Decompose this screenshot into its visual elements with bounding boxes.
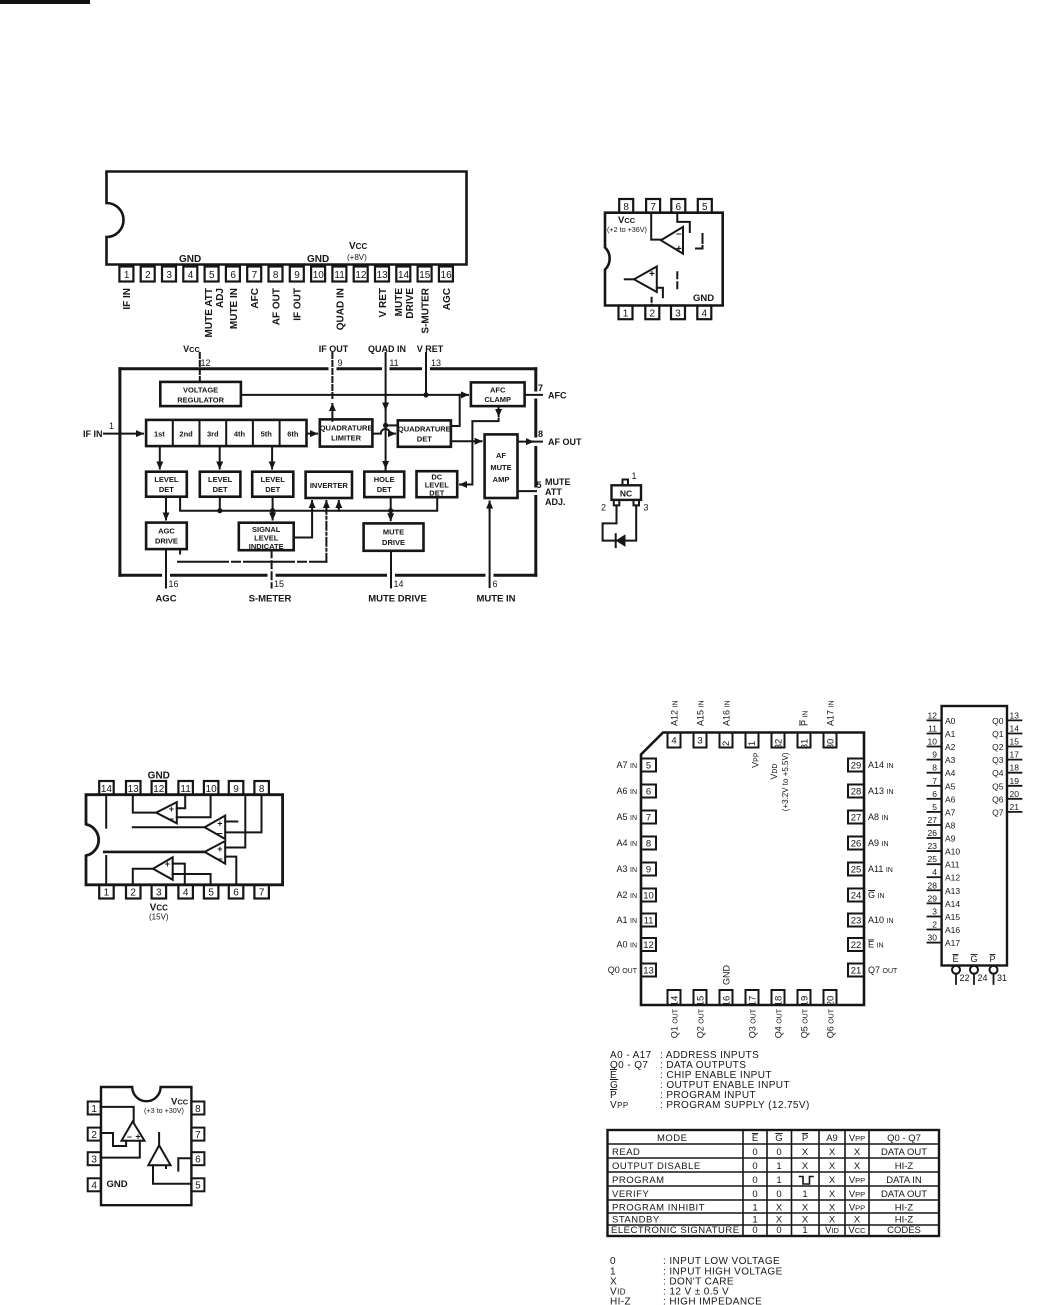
svg-text:7: 7 bbox=[259, 888, 265, 899]
svg-text:DATA OUT: DATA OUT bbox=[881, 1147, 927, 1158]
svg-text:: PROGRAM SUPPLY (12.75V): : PROGRAM SUPPLY (12.75V) bbox=[660, 1100, 810, 1111]
svg-text:E: E bbox=[953, 954, 959, 964]
svg-text:9: 9 bbox=[233, 784, 239, 795]
svg-text:1: 1 bbox=[776, 1161, 781, 1172]
svg-text:X: X bbox=[854, 1215, 861, 1226]
svg-text:Q6: Q6 bbox=[992, 794, 1004, 804]
svg-text:0: 0 bbox=[776, 1147, 781, 1158]
svg-text:A15: A15 bbox=[945, 912, 960, 922]
svg-text:30: 30 bbox=[826, 739, 837, 750]
svg-text:OUTPUT DISABLE: OUTPUT DISABLE bbox=[612, 1161, 701, 1172]
svg-text:A5: A5 bbox=[945, 781, 956, 791]
svg-text:21: 21 bbox=[851, 966, 862, 977]
svg-text:24: 24 bbox=[851, 891, 862, 902]
svg-text:6: 6 bbox=[230, 270, 236, 281]
svg-text:Q0 OUT: Q0 OUT bbox=[608, 965, 638, 975]
svg-text:20: 20 bbox=[826, 996, 837, 1007]
svg-text:Q7: Q7 bbox=[992, 807, 1004, 817]
svg-text:VPP: VPP bbox=[849, 1133, 865, 1144]
svg-text:DET: DET bbox=[265, 485, 280, 494]
svg-text:–: – bbox=[127, 1132, 132, 1142]
svg-text:VPP: VPP bbox=[610, 1100, 629, 1111]
svg-text:HI-Z: HI-Z bbox=[895, 1203, 914, 1214]
svg-text:6: 6 bbox=[932, 789, 937, 799]
svg-text:P: P bbox=[802, 1133, 808, 1144]
svg-text:MUTE DRIVE: MUTE DRIVE bbox=[368, 594, 427, 605]
svg-text:2: 2 bbox=[932, 920, 937, 930]
svg-text:–: – bbox=[676, 229, 682, 240]
svg-text:GND: GND bbox=[107, 1179, 128, 1190]
svg-text:6th: 6th bbox=[287, 429, 299, 438]
svg-text:Q7 OUT: Q7 OUT bbox=[868, 965, 898, 975]
svg-text:1: 1 bbox=[109, 421, 114, 431]
svg-text:8: 8 bbox=[932, 763, 937, 773]
svg-text:A4 IN: A4 IN bbox=[616, 838, 637, 848]
svg-text:A16: A16 bbox=[945, 925, 960, 935]
svg-text:INVERTER: INVERTER bbox=[310, 481, 349, 490]
svg-text:1: 1 bbox=[802, 1225, 807, 1236]
svg-text:29: 29 bbox=[851, 761, 862, 772]
svg-text:HOLE: HOLE bbox=[374, 475, 395, 484]
svg-text:IF OUT: IF OUT bbox=[293, 288, 304, 321]
svg-text:9: 9 bbox=[932, 750, 937, 760]
svg-text:9: 9 bbox=[294, 270, 300, 281]
svg-text:1: 1 bbox=[104, 888, 110, 899]
svg-text:18: 18 bbox=[774, 996, 785, 1007]
svg-text:26: 26 bbox=[928, 828, 938, 838]
svg-text:MUTE ATTADJ: MUTE ATTADJ bbox=[204, 288, 226, 337]
svg-text:MUTE: MUTE bbox=[490, 463, 511, 472]
svg-text:DRIVE: DRIVE bbox=[155, 537, 178, 546]
svg-text:DET: DET bbox=[213, 485, 228, 494]
svg-text:6: 6 bbox=[195, 1155, 201, 1166]
svg-text:Q3 OUT: Q3 OUT bbox=[748, 1008, 758, 1038]
svg-text:1: 1 bbox=[632, 471, 637, 481]
svg-text:QUAD IN: QUAD IN bbox=[336, 288, 347, 330]
svg-text:23: 23 bbox=[851, 916, 862, 927]
svg-text:1: 1 bbox=[623, 308, 629, 319]
svg-text:11: 11 bbox=[644, 916, 654, 927]
svg-text:5: 5 bbox=[932, 802, 937, 812]
svg-text:23: 23 bbox=[928, 841, 938, 851]
svg-text:Q5 OUT: Q5 OUT bbox=[800, 1008, 810, 1038]
svg-text:A0 IN: A0 IN bbox=[616, 940, 637, 950]
svg-text:8: 8 bbox=[273, 270, 279, 281]
svg-text:0: 0 bbox=[776, 1225, 781, 1236]
svg-text:5: 5 bbox=[208, 888, 214, 899]
svg-text:17: 17 bbox=[1010, 750, 1020, 760]
svg-text:HI-Z: HI-Z bbox=[895, 1215, 914, 1226]
svg-text:–: – bbox=[217, 854, 223, 865]
svg-text:1: 1 bbox=[776, 1175, 781, 1186]
svg-text:1: 1 bbox=[124, 270, 130, 281]
svg-text:10: 10 bbox=[643, 891, 654, 902]
svg-text:AFC: AFC bbox=[548, 391, 567, 401]
svg-text:ADJ.: ADJ. bbox=[545, 497, 566, 507]
svg-text:A7: A7 bbox=[945, 807, 956, 817]
svg-text:(+3 to +30V): (+3 to +30V) bbox=[144, 1106, 184, 1115]
svg-text:11: 11 bbox=[389, 358, 398, 368]
svg-text:2nd: 2nd bbox=[179, 429, 193, 438]
svg-text:GND: GND bbox=[148, 771, 170, 782]
svg-text:0: 0 bbox=[752, 1189, 757, 1200]
svg-text:31: 31 bbox=[997, 973, 1007, 983]
svg-text:DET: DET bbox=[417, 435, 432, 444]
svg-text:7: 7 bbox=[195, 1130, 201, 1141]
svg-text:A3: A3 bbox=[945, 755, 956, 765]
svg-text:HI-Z: HI-Z bbox=[610, 1297, 631, 1305]
svg-text:Q3: Q3 bbox=[992, 755, 1004, 765]
svg-text:8: 8 bbox=[259, 784, 265, 795]
svg-text:16: 16 bbox=[722, 996, 733, 1007]
svg-text:9: 9 bbox=[646, 865, 651, 876]
svg-text:0: 0 bbox=[752, 1147, 757, 1158]
svg-text:A13 IN: A13 IN bbox=[868, 786, 894, 796]
svg-text:17: 17 bbox=[748, 996, 759, 1007]
svg-text:A15 IN: A15 IN bbox=[696, 700, 706, 726]
svg-text:Q2 OUT: Q2 OUT bbox=[696, 1008, 706, 1038]
svg-text:X: X bbox=[829, 1215, 836, 1226]
svg-text:X: X bbox=[829, 1147, 836, 1158]
svg-text:A12: A12 bbox=[945, 873, 960, 883]
svg-text:1: 1 bbox=[747, 741, 758, 746]
svg-text:A5 IN: A5 IN bbox=[616, 812, 637, 822]
svg-text:CLAMP: CLAMP bbox=[484, 395, 511, 404]
svg-text:CODES: CODES bbox=[887, 1225, 921, 1236]
svg-text:A1: A1 bbox=[945, 729, 956, 739]
svg-text:X: X bbox=[776, 1203, 783, 1214]
svg-text:15: 15 bbox=[696, 996, 707, 1007]
svg-text:(15V): (15V) bbox=[149, 913, 169, 922]
svg-text:A3 IN: A3 IN bbox=[616, 864, 637, 874]
svg-text:5: 5 bbox=[702, 202, 708, 213]
svg-text:Q4 OUT: Q4 OUT bbox=[774, 1008, 784, 1038]
svg-text:0: 0 bbox=[752, 1225, 757, 1236]
svg-text:13: 13 bbox=[643, 966, 654, 977]
svg-text:A9: A9 bbox=[945, 834, 956, 844]
svg-text:3: 3 bbox=[697, 736, 702, 747]
svg-text:8: 8 bbox=[623, 202, 629, 213]
svg-text:1: 1 bbox=[91, 1104, 97, 1115]
svg-text:11: 11 bbox=[334, 270, 345, 281]
svg-text:AFC: AFC bbox=[490, 386, 506, 395]
svg-text:LEVEL: LEVEL bbox=[154, 475, 179, 484]
svg-text:A4: A4 bbox=[945, 768, 956, 778]
svg-text:: HIGH IMPEDANCE: : HIGH IMPEDANCE bbox=[663, 1297, 762, 1305]
svg-text:A8 IN: A8 IN bbox=[868, 812, 889, 822]
svg-text:REGULATOR: REGULATOR bbox=[177, 396, 224, 405]
svg-text:DATA IN: DATA IN bbox=[886, 1175, 922, 1186]
svg-text:–: – bbox=[168, 814, 174, 825]
svg-text:22: 22 bbox=[851, 940, 862, 951]
svg-text:8: 8 bbox=[646, 839, 651, 850]
svg-text:READ: READ bbox=[612, 1147, 640, 1158]
svg-text:A9: A9 bbox=[826, 1133, 838, 1144]
svg-text:MUTE: MUTE bbox=[383, 528, 404, 537]
svg-text:A1 IN: A1 IN bbox=[616, 915, 637, 925]
svg-text:16: 16 bbox=[169, 579, 179, 589]
svg-text:6: 6 bbox=[493, 579, 498, 589]
svg-text:3: 3 bbox=[91, 1155, 97, 1166]
svg-text:A7 IN: A7 IN bbox=[616, 760, 637, 770]
svg-text:27: 27 bbox=[928, 815, 938, 825]
svg-text:A9 IN: A9 IN bbox=[868, 838, 889, 848]
svg-text:(+3.2V to +5.5V): (+3.2V to +5.5V) bbox=[781, 752, 790, 811]
svg-text:A11 IN: A11 IN bbox=[868, 864, 893, 874]
svg-text:14: 14 bbox=[398, 270, 410, 281]
svg-text:A6: A6 bbox=[945, 794, 956, 804]
svg-text:Q4: Q4 bbox=[992, 768, 1004, 778]
svg-text:PROGRAM INHIBIT: PROGRAM INHIBIT bbox=[612, 1203, 705, 1214]
svg-text:Q1 OUT: Q1 OUT bbox=[670, 1008, 680, 1038]
svg-text:A2 IN: A2 IN bbox=[616, 890, 637, 900]
svg-text:X: X bbox=[802, 1203, 809, 1214]
svg-text:AF: AF bbox=[496, 451, 506, 460]
svg-text:3: 3 bbox=[166, 270, 172, 281]
svg-text:32: 32 bbox=[774, 739, 785, 750]
svg-text:X: X bbox=[829, 1175, 836, 1186]
svg-text:3: 3 bbox=[644, 503, 649, 513]
svg-text:1: 1 bbox=[752, 1203, 757, 1214]
svg-text:5: 5 bbox=[195, 1181, 201, 1192]
svg-text:2: 2 bbox=[721, 741, 732, 746]
svg-text:VERIFY: VERIFY bbox=[612, 1189, 649, 1200]
svg-text:A10 IN: A10 IN bbox=[868, 915, 894, 925]
svg-text:4: 4 bbox=[91, 1181, 97, 1192]
svg-text:28: 28 bbox=[928, 880, 938, 890]
svg-text:0: 0 bbox=[752, 1161, 757, 1172]
svg-text:IF IN: IF IN bbox=[122, 288, 133, 310]
svg-text:0: 0 bbox=[752, 1175, 757, 1186]
svg-text:P IN: P IN bbox=[800, 711, 810, 726]
svg-text:VPP: VPP bbox=[849, 1175, 865, 1186]
svg-text:29: 29 bbox=[928, 893, 938, 903]
svg-text:3rd: 3rd bbox=[207, 429, 219, 438]
svg-text:A8: A8 bbox=[945, 821, 956, 831]
svg-text:X: X bbox=[802, 1161, 809, 1172]
svg-text:VCC: VCC bbox=[349, 241, 367, 252]
svg-text:3: 3 bbox=[156, 888, 162, 899]
svg-text:Q1: Q1 bbox=[992, 729, 1004, 739]
svg-text:AF OUT: AF OUT bbox=[272, 288, 283, 325]
svg-text:QUADRATURE: QUADRATURE bbox=[398, 425, 451, 434]
svg-text:+: + bbox=[217, 844, 222, 854]
svg-text:X: X bbox=[776, 1215, 783, 1226]
svg-text:–: – bbox=[217, 828, 223, 839]
svg-text:19: 19 bbox=[1010, 776, 1020, 786]
svg-text:11: 11 bbox=[180, 784, 191, 795]
svg-text:4: 4 bbox=[702, 308, 708, 319]
svg-text:14: 14 bbox=[101, 784, 113, 795]
svg-text:AGC: AGC bbox=[442, 288, 453, 310]
svg-text:Q6 OUT: Q6 OUT bbox=[826, 1008, 836, 1038]
svg-text:VDD: VDD bbox=[769, 764, 779, 780]
svg-text:: INPUT LOW VOLTAGE: : INPUT LOW VOLTAGE bbox=[663, 1256, 780, 1267]
svg-text:12: 12 bbox=[200, 358, 210, 368]
svg-text:13: 13 bbox=[377, 270, 389, 281]
svg-text:7: 7 bbox=[538, 383, 543, 393]
svg-text:MUTE IN: MUTE IN bbox=[476, 594, 515, 605]
svg-text:12: 12 bbox=[153, 784, 165, 795]
svg-text:A10: A10 bbox=[945, 847, 960, 857]
svg-text:P: P bbox=[990, 954, 996, 964]
svg-text:2: 2 bbox=[650, 308, 656, 319]
svg-text:G: G bbox=[775, 1133, 782, 1144]
svg-text:A0: A0 bbox=[945, 716, 956, 726]
svg-text:DET: DET bbox=[429, 489, 444, 498]
svg-text:Q0 - Q7: Q0 - Q7 bbox=[887, 1133, 921, 1144]
svg-text:G IN: G IN bbox=[868, 890, 885, 900]
svg-text:13: 13 bbox=[431, 358, 441, 368]
svg-text:IF IN: IF IN bbox=[83, 429, 103, 439]
svg-text:G: G bbox=[971, 954, 978, 964]
svg-text:E IN: E IN bbox=[868, 940, 884, 950]
svg-text:A17 IN: A17 IN bbox=[826, 700, 836, 726]
svg-text:DET: DET bbox=[377, 485, 392, 494]
svg-text:A13: A13 bbox=[945, 886, 960, 896]
svg-text:X: X bbox=[854, 1147, 861, 1158]
svg-text:NC: NC bbox=[620, 489, 632, 499]
svg-text:7: 7 bbox=[252, 270, 258, 281]
svg-text:15: 15 bbox=[419, 270, 431, 281]
svg-text:11: 11 bbox=[928, 724, 937, 734]
svg-text:QUADRATURE: QUADRATURE bbox=[320, 424, 373, 433]
svg-text:Q5: Q5 bbox=[992, 781, 1004, 791]
svg-text:14: 14 bbox=[670, 996, 681, 1007]
svg-text:ATT: ATT bbox=[545, 487, 562, 497]
svg-text:8: 8 bbox=[538, 429, 543, 439]
svg-text:VPP: VPP bbox=[849, 1203, 865, 1214]
svg-text:26: 26 bbox=[851, 839, 862, 850]
svg-text:DRIVE: DRIVE bbox=[382, 538, 405, 547]
svg-text:S-MUTER: S-MUTER bbox=[421, 287, 432, 333]
svg-text:LIMITER: LIMITER bbox=[331, 434, 362, 443]
svg-text:24: 24 bbox=[978, 973, 988, 983]
svg-text:2: 2 bbox=[601, 503, 606, 513]
svg-text:+: + bbox=[649, 269, 655, 280]
svg-text:2: 2 bbox=[130, 888, 136, 899]
svg-text:25: 25 bbox=[851, 865, 862, 876]
svg-text:18: 18 bbox=[1010, 763, 1020, 773]
svg-text:VID: VID bbox=[825, 1225, 839, 1236]
svg-text:14: 14 bbox=[394, 579, 404, 589]
svg-text:7: 7 bbox=[650, 202, 656, 213]
svg-text:+: + bbox=[217, 819, 222, 829]
svg-text:30: 30 bbox=[928, 933, 938, 943]
svg-text:5: 5 bbox=[646, 761, 651, 772]
svg-text:4th: 4th bbox=[234, 429, 246, 438]
svg-text:X: X bbox=[829, 1189, 836, 1200]
svg-text:VOLTAGE: VOLTAGE bbox=[183, 386, 218, 395]
svg-text:AFC: AFC bbox=[250, 288, 261, 309]
svg-text:7: 7 bbox=[932, 776, 937, 786]
svg-text:IF OUT: IF OUT bbox=[319, 344, 349, 354]
svg-text:A17: A17 bbox=[945, 938, 960, 948]
svg-text:13: 13 bbox=[1010, 710, 1020, 720]
svg-text:4: 4 bbox=[671, 736, 676, 747]
svg-text:Q0: Q0 bbox=[992, 716, 1004, 726]
svg-text:10: 10 bbox=[313, 270, 325, 281]
svg-text:5th: 5th bbox=[261, 429, 273, 438]
svg-text:GND: GND bbox=[307, 254, 329, 265]
svg-text:V RET: V RET bbox=[417, 344, 444, 354]
svg-text:2: 2 bbox=[91, 1130, 97, 1141]
svg-text:0: 0 bbox=[776, 1189, 781, 1200]
svg-text:A16 IN: A16 IN bbox=[722, 700, 732, 726]
svg-text:MUTEDRIVE: MUTEDRIVE bbox=[394, 288, 416, 319]
svg-text:X: X bbox=[802, 1147, 809, 1158]
svg-text:LEVEL: LEVEL bbox=[208, 475, 233, 484]
svg-text:25: 25 bbox=[928, 854, 938, 864]
svg-text:STANDBY: STANDBY bbox=[612, 1215, 660, 1226]
svg-text:5: 5 bbox=[209, 270, 215, 281]
svg-text:DATA OUT: DATA OUT bbox=[881, 1189, 927, 1200]
svg-text:5: 5 bbox=[537, 480, 542, 490]
svg-text:1st: 1st bbox=[154, 429, 165, 438]
svg-text:INDICATE: INDICATE bbox=[249, 542, 284, 551]
svg-text:10: 10 bbox=[206, 784, 218, 795]
svg-text:HI-Z: HI-Z bbox=[895, 1161, 914, 1172]
svg-text:22: 22 bbox=[960, 973, 970, 983]
svg-text:A11: A11 bbox=[945, 860, 960, 870]
svg-text:LEVEL: LEVEL bbox=[261, 475, 286, 484]
svg-text:A12 IN: A12 IN bbox=[670, 700, 680, 726]
svg-text:4: 4 bbox=[188, 270, 194, 281]
svg-text:2: 2 bbox=[145, 270, 151, 281]
svg-text:13: 13 bbox=[128, 784, 140, 795]
svg-text:X: X bbox=[829, 1203, 836, 1214]
svg-text:VPP: VPP bbox=[849, 1189, 865, 1200]
svg-text:6: 6 bbox=[646, 787, 651, 798]
svg-text:X: X bbox=[829, 1161, 836, 1172]
svg-text:1: 1 bbox=[802, 1189, 807, 1200]
svg-text:QUAD IN: QUAD IN bbox=[368, 344, 406, 354]
svg-text:MUTE IN: MUTE IN bbox=[229, 288, 240, 329]
svg-text:S-METER: S-METER bbox=[249, 594, 292, 605]
svg-text:AF OUT: AF OUT bbox=[548, 437, 582, 447]
svg-text:MODE: MODE bbox=[657, 1133, 688, 1144]
svg-text:GND: GND bbox=[693, 293, 714, 304]
svg-text:X: X bbox=[802, 1215, 809, 1226]
svg-text:MUTE: MUTE bbox=[545, 477, 571, 487]
svg-text:AGC: AGC bbox=[158, 527, 175, 536]
svg-text:DET: DET bbox=[159, 485, 174, 494]
svg-text:0: 0 bbox=[610, 1256, 616, 1267]
svg-text:GND: GND bbox=[722, 965, 732, 986]
svg-text:VCC: VCC bbox=[848, 1225, 866, 1236]
svg-text:14: 14 bbox=[1010, 724, 1020, 734]
svg-text:V RET: V RET bbox=[378, 288, 389, 317]
svg-text:PROGRAM: PROGRAM bbox=[612, 1175, 665, 1186]
svg-text:7: 7 bbox=[646, 813, 651, 824]
svg-text:+: + bbox=[165, 859, 170, 869]
svg-text:4: 4 bbox=[183, 888, 189, 899]
svg-text:VCC: VCC bbox=[183, 344, 200, 354]
svg-text:21: 21 bbox=[1010, 802, 1020, 812]
svg-text:A14 IN: A14 IN bbox=[868, 760, 894, 770]
svg-text:GND: GND bbox=[179, 254, 201, 265]
svg-text:X: X bbox=[854, 1161, 861, 1172]
svg-text:ELECTRONIC SIGNATURE: ELECTRONIC SIGNATURE bbox=[611, 1225, 740, 1236]
svg-text:(+8V): (+8V) bbox=[347, 253, 367, 262]
svg-text:9: 9 bbox=[337, 358, 342, 368]
svg-text:12: 12 bbox=[928, 710, 938, 720]
svg-text:VPP: VPP bbox=[751, 752, 761, 768]
svg-text:+: + bbox=[676, 244, 682, 255]
svg-text:16: 16 bbox=[441, 270, 453, 281]
svg-text:+: + bbox=[169, 804, 174, 814]
svg-text:12: 12 bbox=[643, 940, 654, 951]
